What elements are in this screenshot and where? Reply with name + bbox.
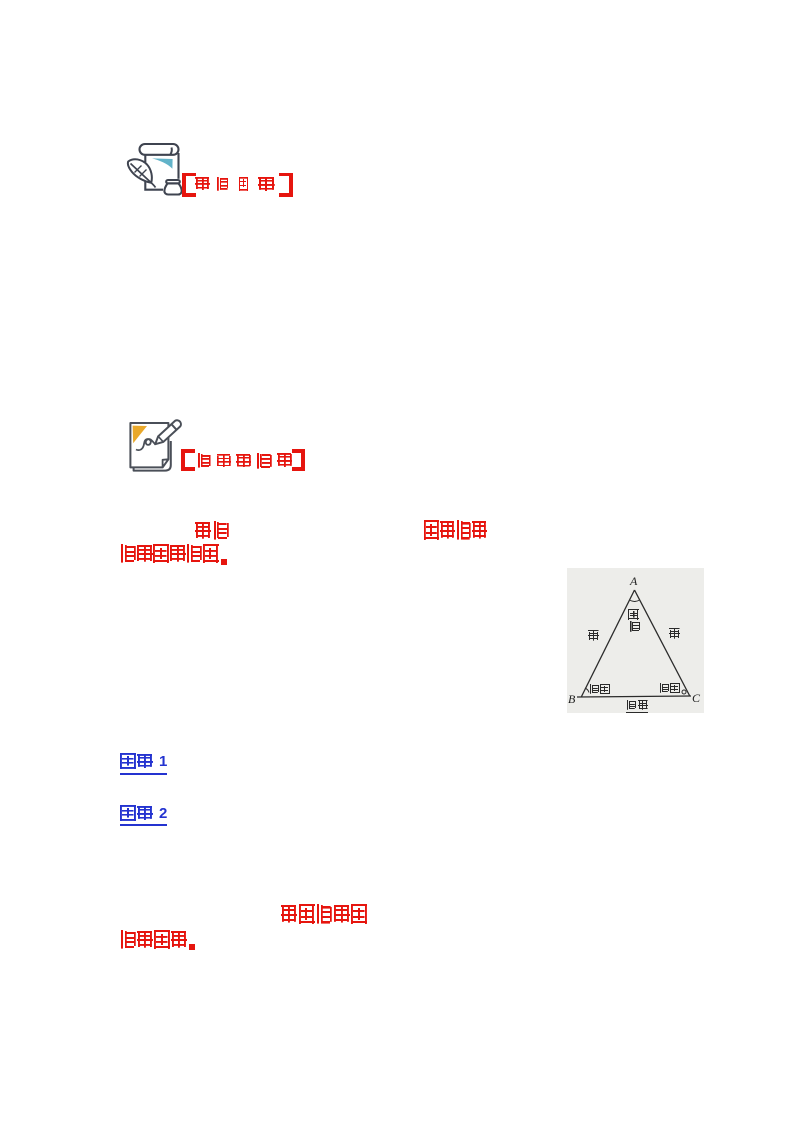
scroll curl hook bbox=[170, 148, 172, 156]
svg-text:A: A bbox=[629, 574, 638, 588]
svg-text:C: C bbox=[692, 691, 701, 705]
red keyword bottom 1 (5 chars) bbox=[281, 904, 367, 924]
page left + bottom edge bbox=[145, 155, 163, 190]
triangle figure bbox=[567, 568, 704, 713]
squiggle bbox=[136, 439, 155, 450]
triangle ABC bbox=[577, 590, 691, 697]
ink bottle bbox=[164, 180, 181, 195]
page right edge bbox=[177, 153, 179, 179]
svg-text:B: B bbox=[568, 692, 576, 706]
red keyword: 两腰 bbox=[195, 521, 229, 541]
figure CJK labels (pseudo glyphs, dark) bbox=[628, 609, 639, 621]
banner 1: 学习目标 icon block bbox=[120, 136, 304, 208]
red keyword line2 (6 chars) bbox=[120, 544, 227, 565]
orange corner bbox=[133, 426, 147, 444]
icon: papers + pencil bbox=[128, 415, 186, 475]
red title 【知识点梳理】 bbox=[181, 449, 305, 470]
red keyword bottom 2 (4 chars + comma) bbox=[120, 930, 195, 950]
front sheet with dog-ear bbox=[130, 423, 168, 467]
teal fold bbox=[152, 158, 173, 168]
icon: scroll + quill + ink bbox=[126, 139, 184, 197]
quill feather bbox=[128, 159, 156, 187]
back sheet bbox=[134, 441, 171, 471]
scroll top band bbox=[140, 144, 179, 155]
red title 【学习目标】 bbox=[182, 173, 293, 197]
pencil bbox=[153, 419, 183, 447]
blue 性质2 bbox=[120, 805, 167, 826]
red keyword: line1 right (4 chars) bbox=[424, 520, 487, 540]
blue 性质1 bbox=[120, 753, 167, 775]
banner 2: 知识点梳理 icon block bbox=[120, 412, 320, 483]
